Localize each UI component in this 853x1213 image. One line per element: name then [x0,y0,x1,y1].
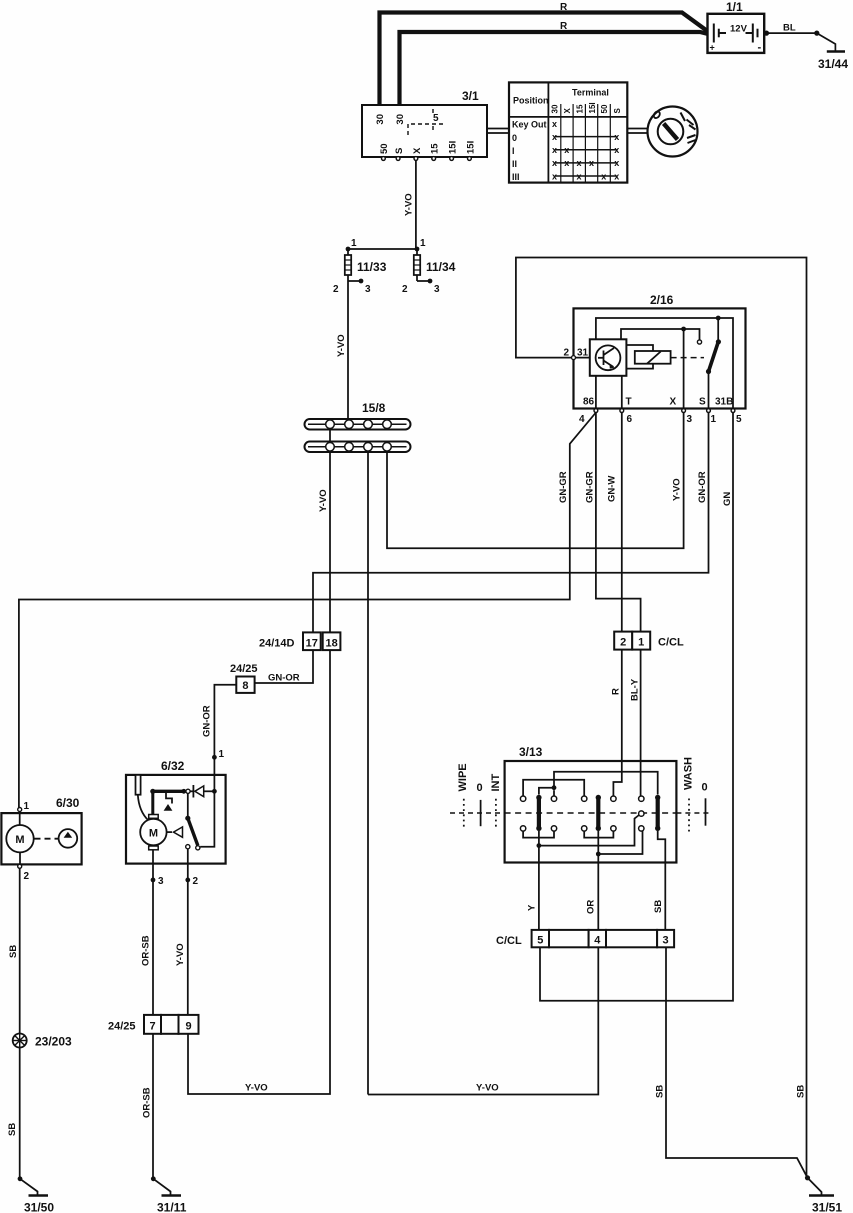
wire GN-GR relay pin 4 to connector C/CL 1 [585,413,641,632]
svg-text:M: M [149,828,158,840]
6/32 thick bus bar [150,789,186,794]
wire Y-VO from ignition X pin down [404,160,416,249]
wire R connector C/CL 2 to switch 3/13 [611,650,622,796]
svg-text:x: x [552,145,557,155]
svg-text:24/25: 24/25 [230,663,258,675]
svg-text:9: 9 [185,1021,191,1033]
svg-text:X: X [412,147,423,154]
wire BL battery to ground [764,23,819,36]
connector line table to key [627,129,647,134]
switch group 2 junction dot [596,852,601,857]
wire GN-GR relay pin 4 to 6/30 pin 1 [19,413,596,808]
svg-text:Y-VO: Y-VO [476,1083,499,1094]
svg-text:31/44: 31/44 [818,57,848,71]
svg-text:I: I [512,146,515,156]
6/32 drive arrow [167,827,183,837]
switch group 2 contacts [582,796,617,831]
svg-text:R: R [560,2,568,13]
svg-text:x: x [589,158,594,168]
svg-text:III: III [512,172,520,182]
switch position labels WIPE 0 INT [450,763,505,826]
wire relay pin 31 to ground loop right edge [516,258,807,1178]
svg-text:WASH: WASH [683,757,695,790]
svg-text:31/50: 31/50 [24,1201,54,1213]
svg-text:x: x [564,158,569,168]
svg-text:11/34: 11/34 [426,260,456,274]
svg-text:1/1: 1/1 [726,0,743,14]
wire GN-OR connector 17 to connector 24/25 8 [255,650,313,683]
6/32 pin 2 [175,864,199,1015]
switch internal dashed travel line [505,812,677,814]
svg-text:OR-SB: OR-SB [141,935,152,966]
svg-text:12V: 12V [730,24,748,35]
svg-text:C/CL: C/CL [496,935,522,947]
svg-text:2/16: 2/16 [650,293,674,307]
svg-text:2: 2 [333,284,339,295]
svg-text:0: 0 [702,782,708,794]
relay bottom pin circles [594,409,735,413]
svg-text:x: x [614,132,619,142]
svg-text:Terminal: Terminal [572,88,609,98]
svg-text:x: x [552,119,557,129]
svg-text:M: M [15,834,24,846]
relay pin numbers [579,414,742,425]
svg-text:WIPE: WIPE [457,763,469,791]
svg-text:3: 3 [158,876,164,887]
fuse 11/33 [333,238,387,295]
svg-text:0: 0 [512,133,517,143]
svg-text:x: x [614,172,619,182]
svg-text:R: R [611,688,622,695]
svg-text:1: 1 [24,801,30,812]
ground 31/51 [805,1175,842,1213]
svg-text:S: S [699,397,706,408]
svg-text:24/14D: 24/14D [259,638,295,650]
svg-text:SB: SB [655,1085,666,1098]
6/32 thermal contact symbol [164,793,173,811]
svg-text:18: 18 [325,638,337,650]
ignition switch 3/1 [362,89,487,160]
wire SB 6/30 pin 2 down [7,868,20,1179]
6/32 internal pin1 wire and diode [186,760,217,798]
relay switch blade [706,318,721,409]
switch position labels WASH 0 [676,757,712,832]
bus bar 15/8 [305,401,411,452]
switch group 2 bridge bar [596,795,601,831]
svg-text:2: 2 [24,871,30,882]
wire GN-OR relay pin 1 to connector 17 [313,413,709,633]
svg-text:5: 5 [537,935,543,947]
svg-text:Y-VO: Y-VO [245,1083,268,1094]
svg-text:x: x [576,158,581,168]
ignition position table [509,82,627,182]
wire GN-W relay pin 6 to connector C/CL 2 [607,413,622,632]
svg-text:3: 3 [434,284,440,295]
svg-text:GN-GR: GN-GR [585,471,596,503]
battery 1/1 [708,0,770,54]
svg-text:Y-VO: Y-VO [318,489,329,512]
wiper motor 6/32 [126,749,226,864]
wire Y-VO fuse 11/33 to bus 15/8 [336,281,348,419]
svg-text:6/30: 6/30 [56,796,80,810]
relay internal top wire to pin 31B [596,316,733,409]
svg-text:BL: BL [783,23,796,34]
svg-text:X: X [670,397,677,408]
wire SB switch to connector C/CL 3 [653,863,665,930]
svg-text:X: X [563,108,572,114]
connector line 3/1 to table [487,129,509,134]
svg-text:x: x [564,145,569,155]
switch group 1 junction dots [552,785,557,790]
svg-text:GN-OR: GN-OR [697,471,708,503]
svg-text:OR: OR [586,900,597,914]
svg-text:1: 1 [711,414,717,425]
wire GN relay pin 5 to connector C/CL 5 [540,413,733,1001]
svg-text:SB: SB [7,1123,18,1136]
svg-text:R: R [560,21,568,32]
svg-text:3/13: 3/13 [519,745,543,759]
svg-text:S: S [613,108,622,114]
svg-text:Y: Y [527,904,538,911]
svg-text:50: 50 [379,143,390,154]
svg-text:GN-GR: GN-GR [558,471,569,503]
svg-text:30: 30 [375,114,386,125]
relay transistor bottom wires to pins 86 and T [596,376,622,409]
relay coil [626,345,704,369]
svg-text:C/CL: C/CL [658,637,684,649]
6/32 choke and curve [136,775,149,821]
ground 31/11 [151,1176,187,1213]
svg-text:GN-W: GN-W [607,476,618,502]
connector 24/25 8 [230,663,258,693]
svg-text:2: 2 [620,637,626,649]
svg-text:30: 30 [551,104,560,113]
svg-text:1: 1 [420,238,426,249]
wire BL-Y connector C/CL 1 to switch 3/13 [630,650,641,796]
svg-text:S: S [394,148,405,154]
svg-text:1: 1 [351,238,357,249]
svg-text:5: 5 [433,113,439,124]
relay transistor [590,339,627,376]
wire bus circle4 to relay pin X 3 [387,413,684,548]
switch group 1 contacts [520,796,556,831]
svg-text:15: 15 [575,104,584,113]
ground 31/44 [817,33,849,71]
svg-text:15I: 15I [466,141,477,154]
relay internal coil top wire to pin X [621,327,702,409]
svg-text:11/33: 11/33 [357,260,387,274]
svg-text:T: T [626,397,632,408]
wire Y switch to connector C/CL 5 [527,863,539,930]
switch group 3 wiring [658,831,666,863]
svg-text:+: + [710,43,715,53]
svg-text:BL-Y: BL-Y [630,678,641,701]
wire OR-SB connector 7 to ground [142,1034,154,1179]
6/32 park switch [185,791,214,863]
svg-text:24/25: 24/25 [108,1021,136,1033]
svg-text:15: 15 [430,143,441,154]
wire fuse feed horizontal [346,247,420,252]
svg-text:31B: 31B [715,397,733,408]
svg-text:1: 1 [219,749,225,760]
svg-text:6: 6 [627,414,633,425]
switch group 1 wiring [523,772,658,863]
svg-text:GN-OR: GN-OR [202,705,213,737]
wire Y-VO bus to connector 18 [318,452,330,632]
svg-text:50: 50 [600,104,609,113]
wire bus circle3 long down [367,452,369,1095]
svg-text:-: - [758,42,762,54]
svg-text:x: x [552,158,557,168]
svg-text:Key Out: Key Out [512,120,547,130]
svg-text:II: II [512,159,517,169]
svg-text:x: x [614,145,619,155]
switch group 3 bridge bar [655,795,660,831]
svg-text:5: 5 [736,414,742,425]
connector 24/14D 17 18 [259,632,340,650]
switch group 3 contacts [639,796,644,831]
svg-text:GN: GN [722,492,733,506]
switch group 1 bridge bar [536,795,541,831]
svg-text:2: 2 [563,348,569,359]
svg-text:4: 4 [579,414,585,425]
svg-text:17: 17 [306,638,318,650]
svg-text:Y-VO: Y-VO [404,193,415,216]
svg-text:1: 1 [638,637,644,649]
svg-text:OR-SB: OR-SB [142,1087,153,1118]
connector 24/25 7 9 [108,1015,199,1034]
svg-text:x: x [601,172,606,182]
svg-text:0: 0 [477,782,483,794]
wire R thick top from battery to ignition 30 [380,13,709,106]
svg-text:15I: 15I [448,141,459,154]
wire Y-VO connector 9 to connector 18 [188,650,330,1094]
key symbol [648,107,698,157]
svg-text:SB: SB [796,1085,807,1098]
svg-text:Y-VO: Y-VO [175,943,186,966]
connector C/CL 2 1 [614,632,684,650]
wire GN-OR connector 8 to 6/32 pin 1 [202,685,237,755]
relay bottom pin labels [583,397,733,408]
svg-text:GN-OR: GN-OR [268,673,300,684]
svg-text:x: x [552,172,557,182]
washer pump 6/30 [1,796,81,882]
svg-text:2: 2 [402,284,408,295]
svg-text:x: x [614,158,619,168]
svg-text:Position: Position [513,96,549,106]
svg-text:2: 2 [193,876,199,887]
svg-text:3: 3 [365,284,371,295]
svg-text:4: 4 [594,935,601,947]
svg-text:x: x [552,132,557,142]
svg-text:86: 86 [583,397,595,408]
splice 23/203 [13,1034,72,1049]
svg-text:8: 8 [242,680,248,692]
svg-text:31/11: 31/11 [157,1201,187,1213]
svg-text:3: 3 [663,935,669,947]
fuse 11/34 [402,238,456,295]
relay 2/16 [563,293,745,409]
svg-text:x: x [576,172,581,182]
svg-text:15/8: 15/8 [362,401,386,415]
switch group 2 wiring [584,831,642,863]
wire SB connector C/CL 3 to ground 31/51 [655,947,808,1178]
wiper switch 3/13 [505,745,677,863]
svg-text:15I: 15I [588,102,597,113]
6/32 motor M [140,791,166,863]
svg-text:7: 7 [149,1021,155,1033]
svg-text:31/51: 31/51 [812,1201,842,1213]
svg-text:23/203: 23/203 [35,1035,72,1049]
ground 31/50 [18,1176,55,1213]
svg-text:3: 3 [687,414,693,425]
svg-text:SB: SB [8,945,19,958]
wire Y-VO bus circle3 to connector C/CL 4 [368,947,598,1094]
svg-text:SB: SB [653,900,664,913]
svg-text:Y-VO: Y-VO [672,478,683,501]
wire R thick lower from battery to ignition 30 [400,32,709,105]
wire OR switch to connector C/CL 4 [586,863,599,930]
svg-text:30: 30 [395,114,406,125]
connector C/CL 5 4 3 [496,930,674,947]
svg-text:6/32: 6/32 [161,759,185,773]
svg-text:INT: INT [490,774,502,792]
svg-text:Y-VO: Y-VO [336,334,347,357]
6/32 pin 3 [141,864,165,1015]
svg-text:3/1: 3/1 [462,89,479,103]
